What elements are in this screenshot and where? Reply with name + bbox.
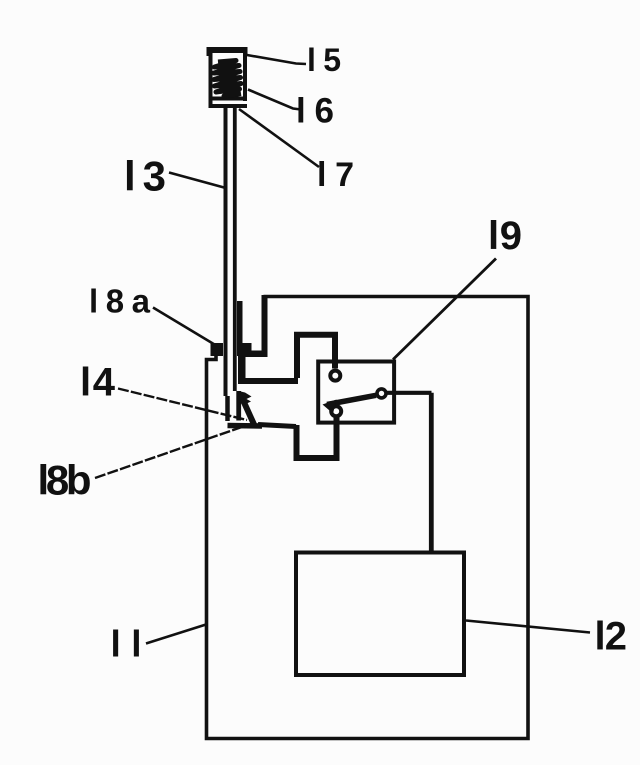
rod 13 left line [224,108,228,396]
bracket top inverted-U (cross top arm) [297,335,335,378]
svg-text:l4: l4 [80,361,116,405]
stop ledge right block [237,343,252,356]
bracket left arm top edge [240,378,298,384]
right contact [377,389,386,398]
lower contact [331,406,341,416]
rod bottom bar [228,423,263,429]
spring housing cap (top of 15 box) [207,47,248,108]
svg-text:l8b: l8b [38,457,92,504]
spring 15 (scribbled coil) [214,61,241,97]
housing 11 outline [207,297,529,739]
svg-text:l9: l9 [488,214,522,258]
leader 12 [466,621,590,633]
housing notch thick vertical [262,295,268,352]
rod 13 right line [233,108,237,391]
rod 13 left line lower tip [225,396,230,421]
thick line below right ledge [238,356,246,384]
leader 16 [248,90,301,110]
leader 18a [153,308,217,347]
bracket bottom arm [297,418,337,459]
leader 17 [239,109,319,167]
svg-text:l5: l5 [307,42,341,78]
thick horizontal joining ledge to notch [245,351,268,358]
leader 14 [118,389,247,421]
rod lower right line [236,391,241,421]
svg-text:l7: l7 [317,156,354,194]
switch lever [327,395,376,404]
component box 12 [296,553,464,676]
svg-text:l2: l2 [595,615,628,659]
wire from switch to corner [387,391,432,395]
switch box 19 [318,362,394,423]
svg-text:l6: l6 [296,92,334,131]
rod sleeve thick segment (right of rod) [237,301,243,344]
upper contact [330,371,340,381]
stop ledge 18a left block [211,343,224,356]
lever arrowhead [323,400,337,414]
leader 18b [95,425,249,479]
leader 13 [169,173,224,188]
leader 15 [247,55,306,64]
pawl arm diagonal [243,399,255,426]
svg-text:l3: l3 [124,153,166,200]
wire down to box 12 [429,393,434,552]
pawl 18b claw head [239,391,252,405]
leader 11 [146,625,206,644]
bracket left arm bottom edge [258,425,296,427]
leader 19 [393,259,496,360]
